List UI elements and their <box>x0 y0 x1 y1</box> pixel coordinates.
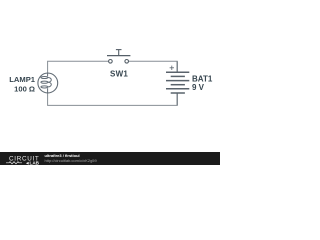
lamp LAMP1 filament coil <box>41 74 51 93</box>
switch SW1 left contact <box>109 60 113 64</box>
svg-text:SW1: SW1 <box>110 70 128 79</box>
wire top-right: SW1 right contact to battery top <box>129 61 178 72</box>
lamp LAMP1 circle <box>38 73 58 93</box>
svg-text:http://circuitlab.com/c/xK2g59: http://circuitlab.com/c/xK2g59 <box>45 158 98 163</box>
watermark logo zigzag <box>6 162 22 164</box>
svg-text:9 V: 9 V <box>192 83 205 92</box>
battery BAT1 plus sign <box>170 66 174 70</box>
switch SW1 stem <box>118 50 120 56</box>
battery BAT1 bottom stem <box>176 93 178 105</box>
battery BAT1 top stem <box>176 61 178 72</box>
wire top-left: lamp top to SW1 left contact <box>48 61 109 73</box>
svg-text:100 Ω: 100 Ω <box>14 85 35 94</box>
svg-text:◄LAB: ◄LAB <box>25 160 40 165</box>
switch SW1 bar <box>107 55 130 57</box>
switch SW1 cap <box>116 49 122 51</box>
svg-text:LAMP1: LAMP1 <box>9 75 36 84</box>
watermark bar <box>0 152 220 165</box>
wire bottom: battery bottom to lamp bottom <box>48 93 178 106</box>
switch SW1 right contact <box>125 60 129 64</box>
battery BAT1 plates <box>166 72 189 93</box>
